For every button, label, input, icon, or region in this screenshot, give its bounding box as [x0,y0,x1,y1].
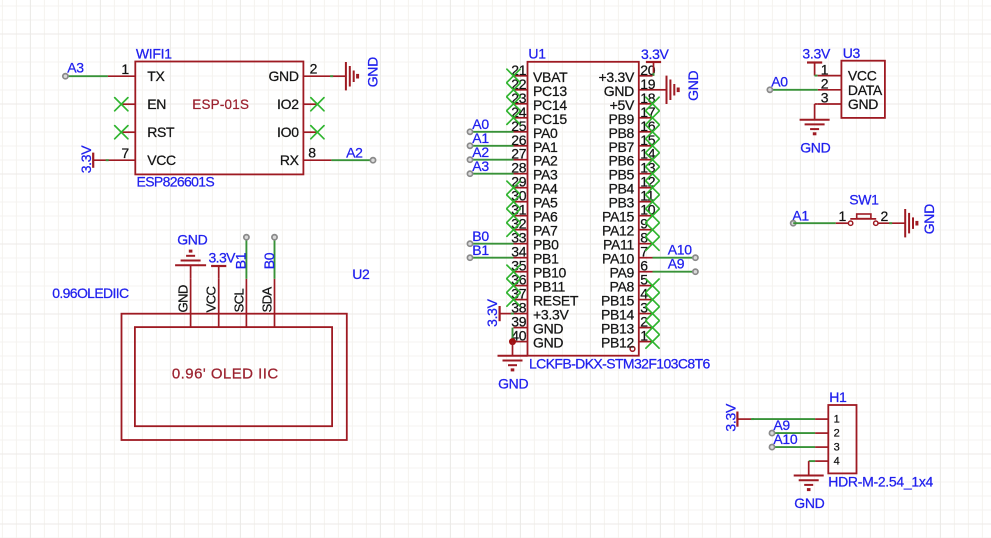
svg-text:GND: GND [268,68,298,84]
svg-text:GND: GND [921,204,937,234]
svg-text:A3: A3 [472,158,489,174]
svg-text:3.3V: 3.3V [802,46,831,62]
svg-text:2: 2 [881,208,889,224]
svg-text:B1: B1 [472,242,489,258]
svg-text:B1: B1 [233,252,249,269]
svg-text:SDA: SDA [260,287,275,313]
svg-text:ESP826601S: ESP826601S [137,173,215,189]
svg-text:2: 2 [834,428,840,440]
svg-text:U2: U2 [352,266,370,282]
svg-text:1: 1 [834,414,840,426]
svg-text:3.3V: 3.3V [484,298,500,327]
svg-text:3: 3 [834,442,840,454]
svg-text:0.96OLEDIIC: 0.96OLEDIIC [52,285,129,301]
svg-text:1: 1 [121,61,129,77]
svg-text:VCC: VCC [147,152,176,168]
svg-text:LCKFB-DKX-STM32F103C8T6: LCKFB-DKX-STM32F103C8T6 [529,356,711,372]
svg-text:4: 4 [834,456,840,468]
svg-text:A2: A2 [346,145,363,161]
svg-text:SW1: SW1 [849,192,879,208]
svg-text:U1: U1 [528,45,546,61]
svg-text:PB12: PB12 [601,335,635,351]
svg-text:IO2: IO2 [277,96,299,112]
svg-text:GND: GND [177,232,207,248]
svg-text:0.96' OLED IIC: 0.96' OLED IIC [172,366,279,383]
svg-text:GND: GND [498,375,528,391]
svg-text:GND: GND [533,335,563,351]
svg-text:1: 1 [839,208,847,224]
svg-text:TX: TX [147,68,165,84]
svg-text:A10: A10 [773,431,798,447]
svg-text:IO0: IO0 [277,124,299,140]
svg-text:U3: U3 [843,45,861,61]
svg-text:ESP-01S: ESP-01S [192,97,249,112]
svg-text:3.3V: 3.3V [78,145,94,174]
svg-text:GND: GND [848,96,878,112]
svg-text:GND: GND [800,139,830,155]
svg-text:B0: B0 [261,252,277,269]
svg-text:7: 7 [121,145,129,161]
svg-text:VCC: VCC [204,286,219,313]
svg-text:GND: GND [794,495,824,511]
svg-text:RST: RST [147,124,175,140]
svg-text:A9: A9 [668,256,685,272]
svg-text:HDR-M-2.54_1x4: HDR-M-2.54_1x4 [828,474,933,490]
svg-text:EN: EN [147,96,166,112]
svg-text:3.3V: 3.3V [641,46,670,62]
svg-text:3: 3 [821,90,829,106]
svg-text:GND: GND [365,57,381,87]
svg-text:GND: GND [176,285,191,312]
svg-text:SCL: SCL [231,289,246,313]
svg-text:A0: A0 [771,74,788,90]
svg-text:GND: GND [685,70,701,100]
svg-text:2: 2 [310,61,318,77]
svg-text:3.3V: 3.3V [722,403,738,432]
svg-text:H1: H1 [829,389,847,405]
svg-text:A3: A3 [67,60,84,76]
svg-text:8: 8 [308,145,316,161]
svg-text:RX: RX [280,152,300,168]
svg-text:WIFI1: WIFI1 [136,45,172,61]
